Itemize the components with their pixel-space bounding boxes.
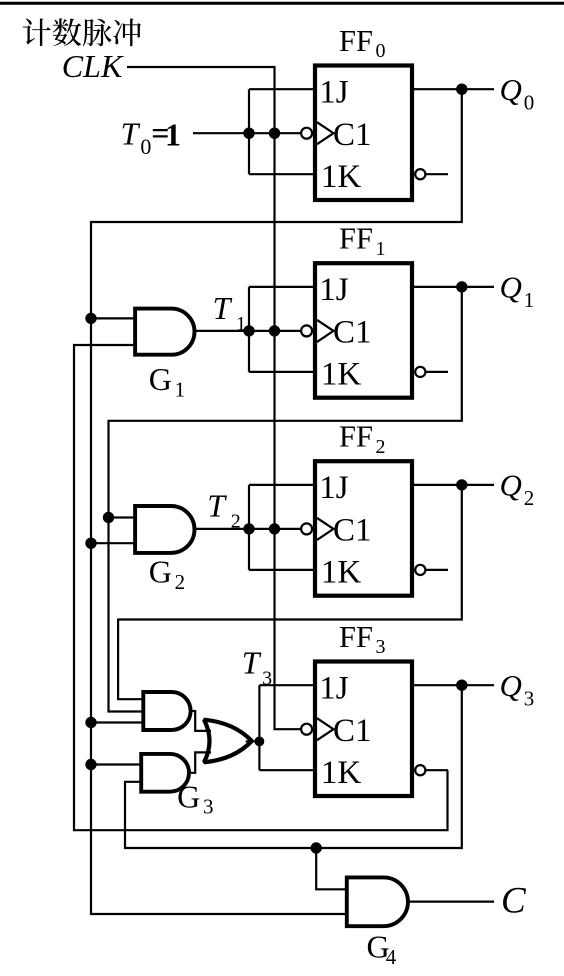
svg-text:FF: FF [339, 620, 373, 654]
svg-text:T: T [213, 290, 233, 326]
svg-text:1: 1 [524, 288, 535, 312]
svg-text:Q: Q [500, 72, 522, 107]
svg-text:T: T [242, 645, 262, 681]
svg-text:Q: Q [500, 270, 522, 305]
svg-text:G: G [149, 361, 172, 397]
svg-text:Q: Q [500, 668, 522, 703]
svg-text:0: 0 [140, 134, 151, 159]
svg-text:1K: 1K [321, 159, 362, 195]
svg-text:C1: C1 [333, 315, 372, 351]
svg-text:1J: 1J [319, 470, 349, 506]
svg-text:FF: FF [339, 420, 373, 454]
svg-text:1K: 1K [321, 357, 362, 393]
svg-text:G: G [177, 779, 200, 815]
svg-text:CLK: CLK [62, 48, 124, 84]
svg-text:2: 2 [524, 486, 535, 510]
svg-text:0: 0 [524, 91, 535, 115]
svg-text:G: G [149, 554, 172, 590]
svg-text:Q: Q [500, 468, 522, 503]
svg-text:1: 1 [236, 313, 246, 335]
svg-text:1K: 1K [321, 555, 362, 591]
svg-text:2: 2 [231, 511, 241, 533]
svg-text:C1: C1 [333, 117, 372, 153]
svg-text:2: 2 [175, 570, 186, 594]
svg-text:1J: 1J [319, 74, 349, 110]
svg-text:1K: 1K [321, 755, 362, 791]
svg-text:4: 4 [386, 945, 397, 969]
svg-text:1: 1 [175, 378, 186, 402]
svg-text:C1: C1 [333, 513, 372, 549]
svg-text:0: 0 [376, 40, 386, 62]
svg-text:2: 2 [376, 436, 386, 458]
svg-text:1: 1 [376, 238, 386, 260]
svg-text:3: 3 [203, 795, 214, 819]
svg-text:FF: FF [339, 24, 373, 58]
svg-text:T: T [207, 488, 227, 524]
svg-text:C1: C1 [333, 713, 372, 749]
svg-text:1: 1 [165, 116, 181, 152]
svg-text:FF: FF [339, 222, 373, 256]
svg-text:1J: 1J [319, 272, 349, 308]
svg-text:3: 3 [524, 687, 535, 711]
svg-text:3: 3 [262, 668, 272, 690]
svg-text:C: C [501, 881, 527, 922]
svg-text:1J: 1J [319, 670, 349, 706]
svg-text:T: T [121, 115, 141, 151]
svg-text:3: 3 [376, 636, 386, 658]
